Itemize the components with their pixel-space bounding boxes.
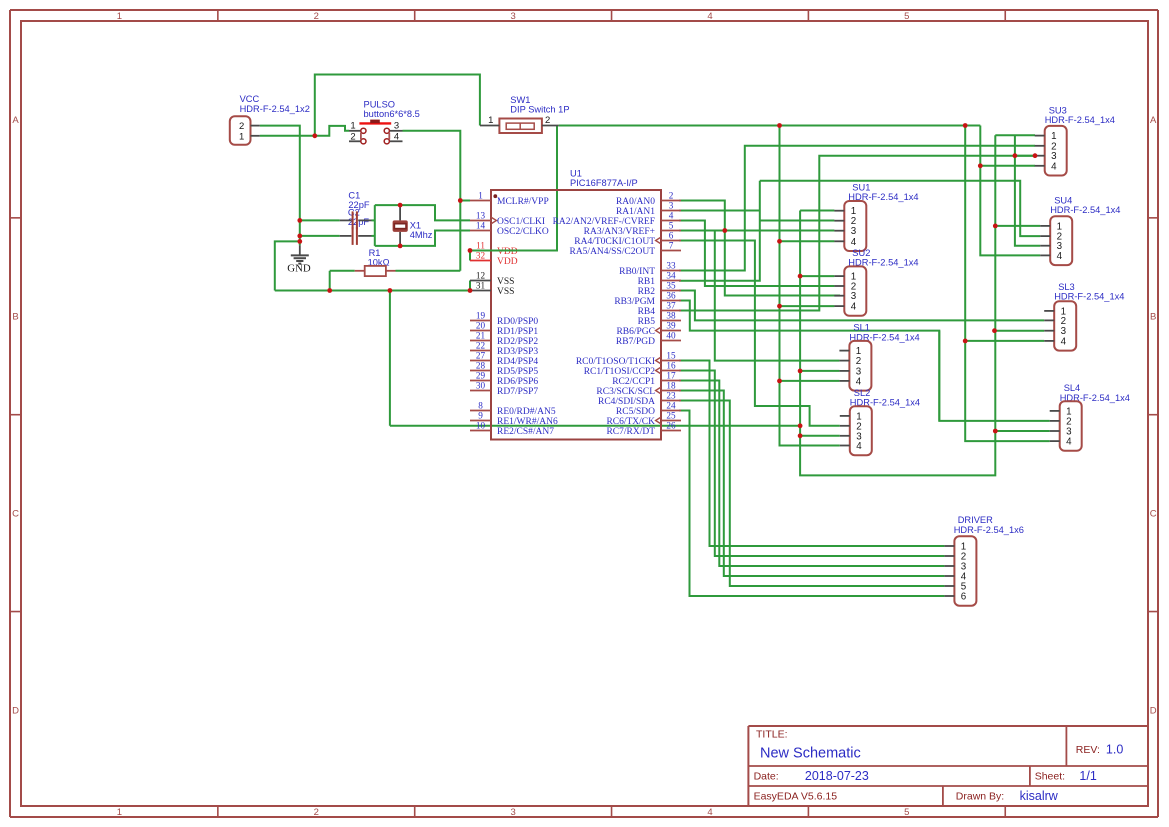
svg-text:DRIVER: DRIVER bbox=[958, 515, 993, 525]
svg-text:VDD: VDD bbox=[497, 247, 518, 257]
svg-text:TITLE:: TITLE: bbox=[756, 729, 788, 741]
svg-text:HDR-F-2.54_1x6: HDR-F-2.54_1x6 bbox=[954, 525, 1024, 535]
svg-text:OSC1/CLKI: OSC1/CLKI bbox=[497, 217, 545, 227]
svg-text:HDR-F-2.54_1x4: HDR-F-2.54_1x4 bbox=[1050, 205, 1120, 215]
svg-text:C1: C1 bbox=[348, 191, 360, 201]
svg-text:4: 4 bbox=[669, 211, 674, 221]
svg-text:23: 23 bbox=[666, 391, 676, 401]
svg-text:Drawn By:: Drawn By: bbox=[956, 791, 1004, 803]
svg-text:Sheet:: Sheet: bbox=[1035, 771, 1065, 783]
svg-text:RB4: RB4 bbox=[638, 307, 656, 317]
svg-text:RD0/PSP0: RD0/PSP0 bbox=[497, 317, 538, 327]
svg-text:DIP Switch 1P: DIP Switch 1P bbox=[510, 105, 569, 115]
svg-text:17: 17 bbox=[666, 371, 676, 381]
svg-text:RD5/PSP5: RD5/PSP5 bbox=[497, 367, 538, 377]
svg-text:12: 12 bbox=[476, 271, 486, 281]
svg-text:RE2/CS#/AN7: RE2/CS#/AN7 bbox=[497, 427, 554, 437]
svg-text:3: 3 bbox=[510, 11, 515, 22]
svg-text:RA2/AN2/VREF-/CVREF: RA2/AN2/VREF-/CVREF bbox=[553, 217, 655, 227]
svg-text:21: 21 bbox=[476, 331, 486, 341]
svg-text:18: 18 bbox=[666, 381, 676, 391]
svg-text:RB2: RB2 bbox=[638, 287, 656, 297]
svg-text:RD7/PSP7: RD7/PSP7 bbox=[497, 387, 538, 397]
svg-text:32: 32 bbox=[476, 251, 486, 261]
svg-text:RB5: RB5 bbox=[638, 317, 656, 327]
svg-text:20: 20 bbox=[476, 321, 486, 331]
svg-text:37: 37 bbox=[666, 301, 676, 311]
svg-text:RA3/AN3/VREF+: RA3/AN3/VREF+ bbox=[584, 227, 655, 237]
svg-text:RC7/RX/DT: RC7/RX/DT bbox=[606, 427, 655, 437]
svg-text:4: 4 bbox=[1051, 161, 1057, 172]
svg-text:OSC2/CLKO: OSC2/CLKO bbox=[497, 227, 549, 237]
svg-text:3: 3 bbox=[510, 807, 515, 818]
svg-text:33: 33 bbox=[666, 261, 676, 271]
svg-text:D: D bbox=[12, 705, 19, 716]
svg-text:A: A bbox=[12, 115, 19, 126]
svg-text:SL2: SL2 bbox=[854, 388, 871, 398]
svg-text:10: 10 bbox=[476, 421, 486, 431]
svg-text:24: 24 bbox=[666, 401, 676, 411]
svg-text:3: 3 bbox=[851, 226, 857, 237]
svg-text:RA5/AN4/SS/C2OUT: RA5/AN4/SS/C2OUT bbox=[569, 247, 655, 257]
svg-text:25: 25 bbox=[666, 411, 676, 421]
svg-text:RB6/PGC: RB6/PGC bbox=[616, 327, 655, 337]
svg-text:4: 4 bbox=[707, 11, 712, 22]
svg-text:39: 39 bbox=[666, 321, 676, 331]
svg-text:RA0/AN0: RA0/AN0 bbox=[616, 197, 655, 207]
svg-text:C: C bbox=[12, 509, 19, 520]
svg-text:RA1/AN1: RA1/AN1 bbox=[616, 207, 655, 217]
svg-text:REV:: REV: bbox=[1076, 744, 1100, 756]
svg-text:SU4: SU4 bbox=[1054, 195, 1072, 205]
svg-text:4: 4 bbox=[1066, 437, 1072, 448]
svg-text:RC1/T1OSI/CCP2: RC1/T1OSI/CCP2 bbox=[584, 367, 656, 377]
svg-text:5: 5 bbox=[904, 807, 909, 818]
svg-text:6: 6 bbox=[669, 231, 674, 241]
svg-text:MCLR#/VPP: MCLR#/VPP bbox=[497, 197, 549, 207]
svg-text:SL3: SL3 bbox=[1058, 282, 1075, 292]
svg-text:27: 27 bbox=[476, 351, 486, 361]
svg-text:2: 2 bbox=[545, 115, 550, 126]
svg-text:2: 2 bbox=[350, 131, 355, 142]
svg-text:button6*6*8.5: button6*6*8.5 bbox=[364, 109, 420, 119]
svg-text:RC3/SCK/SCL: RC3/SCK/SCL bbox=[596, 387, 655, 397]
svg-text:RE1/WR#/AN6: RE1/WR#/AN6 bbox=[497, 417, 558, 427]
svg-text:Date:: Date: bbox=[754, 771, 779, 783]
svg-text:RC5/SDO: RC5/SDO bbox=[616, 407, 655, 417]
svg-text:8: 8 bbox=[478, 401, 483, 411]
svg-text:2: 2 bbox=[314, 807, 319, 818]
svg-text:RC2/CCP1: RC2/CCP1 bbox=[612, 377, 655, 387]
svg-text:SL1: SL1 bbox=[853, 323, 870, 333]
svg-text:5: 5 bbox=[904, 11, 909, 22]
svg-text:RC0/T1OSO/T1CKI: RC0/T1OSO/T1CKI bbox=[576, 357, 655, 367]
svg-text:4: 4 bbox=[851, 237, 857, 248]
svg-text:4: 4 bbox=[1061, 336, 1067, 347]
svg-text:13: 13 bbox=[476, 211, 486, 221]
svg-text:HDR-F-2.54_1x2: HDR-F-2.54_1x2 bbox=[240, 104, 310, 114]
svg-text:VDD: VDD bbox=[497, 257, 518, 267]
svg-text:RB1: RB1 bbox=[638, 277, 656, 287]
svg-text:2: 2 bbox=[314, 11, 319, 22]
svg-text:RB0/INT: RB0/INT bbox=[619, 267, 655, 277]
svg-text:1: 1 bbox=[117, 807, 122, 818]
svg-text:3: 3 bbox=[851, 291, 857, 302]
svg-text:5: 5 bbox=[669, 221, 674, 231]
svg-text:7: 7 bbox=[669, 241, 674, 251]
svg-text:RD3/PSP3: RD3/PSP3 bbox=[497, 347, 538, 357]
svg-text:SW1: SW1 bbox=[510, 95, 530, 105]
svg-text:35: 35 bbox=[666, 281, 676, 291]
svg-text:B: B bbox=[12, 312, 18, 323]
svg-text:RD4/PSP4: RD4/PSP4 bbox=[497, 357, 538, 367]
svg-text:15: 15 bbox=[666, 351, 676, 361]
svg-text:RC6/TX/CK: RC6/TX/CK bbox=[606, 417, 655, 427]
svg-text:34: 34 bbox=[666, 271, 676, 281]
svg-text:9: 9 bbox=[478, 411, 483, 421]
svg-text:6: 6 bbox=[961, 592, 967, 603]
svg-text:4: 4 bbox=[394, 131, 399, 142]
svg-text:VCC: VCC bbox=[240, 94, 260, 104]
svg-text:SU3: SU3 bbox=[1049, 105, 1067, 115]
svg-text:4Mhz: 4Mhz bbox=[410, 230, 433, 240]
svg-text:1/1: 1/1 bbox=[1079, 769, 1096, 783]
svg-text:3: 3 bbox=[394, 121, 399, 132]
svg-text:RD1/PSP1: RD1/PSP1 bbox=[497, 327, 538, 337]
svg-text:1: 1 bbox=[239, 132, 244, 143]
svg-text:R1: R1 bbox=[369, 248, 381, 258]
svg-text:31: 31 bbox=[476, 281, 486, 291]
svg-text:38: 38 bbox=[666, 311, 676, 321]
svg-text:2: 2 bbox=[669, 191, 674, 201]
svg-text:36: 36 bbox=[666, 291, 676, 301]
svg-text:4: 4 bbox=[851, 302, 857, 313]
svg-text:1: 1 bbox=[478, 191, 483, 201]
svg-text:19: 19 bbox=[476, 311, 486, 321]
svg-text:4: 4 bbox=[856, 441, 862, 452]
svg-text:1: 1 bbox=[488, 115, 493, 126]
svg-text:RC4/SDI/SDA: RC4/SDI/SDA bbox=[598, 397, 655, 407]
svg-text:SU1: SU1 bbox=[852, 182, 870, 192]
svg-text:RB3/PGM: RB3/PGM bbox=[614, 297, 655, 307]
svg-text:D: D bbox=[1150, 705, 1157, 716]
svg-text:C: C bbox=[1150, 509, 1157, 520]
svg-text:26: 26 bbox=[666, 421, 676, 431]
svg-text:2018-07-23: 2018-07-23 bbox=[805, 769, 869, 783]
svg-text:30: 30 bbox=[476, 381, 486, 391]
svg-text:4: 4 bbox=[1057, 251, 1063, 262]
svg-text:A: A bbox=[1150, 115, 1157, 126]
svg-text:VSS: VSS bbox=[497, 277, 514, 287]
svg-text:22pF: 22pF bbox=[348, 217, 370, 227]
svg-text:28: 28 bbox=[476, 361, 486, 371]
svg-text:4: 4 bbox=[856, 376, 862, 387]
svg-text:RB7/PGD: RB7/PGD bbox=[616, 337, 655, 347]
svg-text:RD2/PSP2: RD2/PSP2 bbox=[497, 337, 538, 347]
svg-text:1.0: 1.0 bbox=[1106, 743, 1123, 757]
svg-text:RD6/PSP6: RD6/PSP6 bbox=[497, 377, 538, 387]
svg-text:40: 40 bbox=[666, 331, 676, 341]
svg-text:14: 14 bbox=[476, 221, 486, 231]
svg-text:GND: GND bbox=[287, 263, 311, 275]
svg-text:11: 11 bbox=[476, 241, 485, 251]
svg-text:SU2: SU2 bbox=[852, 248, 870, 258]
svg-text:B: B bbox=[1150, 312, 1156, 323]
svg-text:X1: X1 bbox=[410, 220, 421, 230]
svg-text:4: 4 bbox=[707, 807, 712, 818]
svg-text:VSS: VSS bbox=[497, 287, 514, 297]
svg-text:1: 1 bbox=[117, 11, 122, 22]
svg-text:EasyEDA V5.6.15: EasyEDA V5.6.15 bbox=[754, 791, 838, 803]
svg-text:HDR-F-2.54_1x4: HDR-F-2.54_1x4 bbox=[1045, 115, 1115, 125]
svg-text:PIC16F877A-I/P: PIC16F877A-I/P bbox=[570, 178, 638, 188]
svg-text:U1: U1 bbox=[570, 169, 582, 179]
svg-text:SL4: SL4 bbox=[1064, 383, 1081, 393]
svg-text:RA4/T0CKI/C1OUT: RA4/T0CKI/C1OUT bbox=[574, 237, 655, 247]
svg-text:16: 16 bbox=[666, 361, 676, 371]
svg-text:New Schematic: New Schematic bbox=[760, 746, 861, 762]
svg-text:C2: C2 bbox=[348, 208, 360, 218]
svg-text:29: 29 bbox=[476, 371, 486, 381]
svg-text:22: 22 bbox=[476, 341, 486, 351]
svg-text:kisalrw: kisalrw bbox=[1020, 789, 1059, 803]
svg-text:PULSO: PULSO bbox=[364, 100, 396, 110]
svg-text:RE0/RD#/AN5: RE0/RD#/AN5 bbox=[497, 407, 556, 417]
svg-text:3: 3 bbox=[669, 201, 674, 211]
svg-text:1: 1 bbox=[350, 121, 355, 132]
